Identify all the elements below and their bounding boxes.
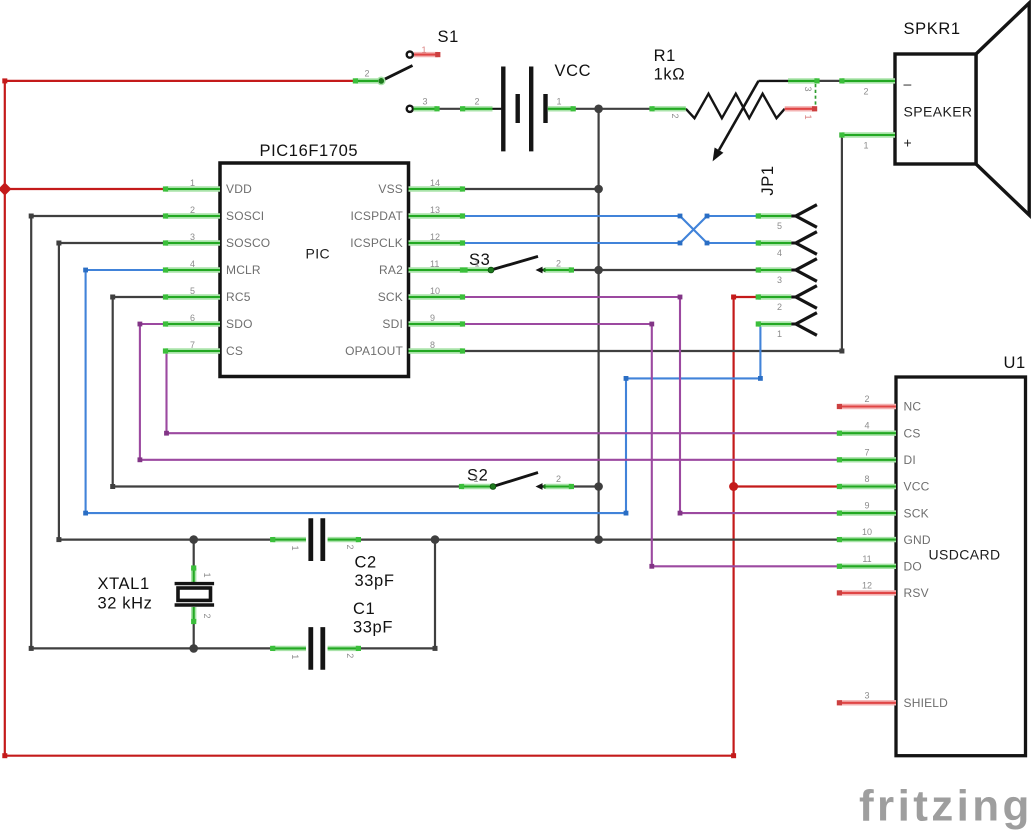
svg-text:4: 4 — [190, 259, 195, 269]
JP1 pin 5 stub — [756, 213, 792, 218]
PIC pin 3 SOSCO stub — [163, 240, 220, 245]
svg-text:OPA1OUT: OPA1OUT — [345, 344, 403, 358]
wire C1 to GND rail (dark) — [358, 540, 437, 651]
svg-text:3: 3 — [803, 86, 813, 91]
U1 pin 4 CS stub — [837, 431, 896, 436]
svg-text:VDD: VDD — [226, 182, 252, 196]
switch S2 lever — [493, 473, 538, 487]
PIC pin 7 CS stub — [163, 348, 220, 353]
wire RC5 to S2 (dark) — [110, 295, 461, 490]
svg-text:SHIELD: SHIELD — [904, 696, 949, 710]
PIC pin 8 OPA1OUT stub — [409, 348, 466, 353]
U1 pin 10 GND stub — [837, 537, 896, 542]
speaker SPKR1 body box — [895, 54, 976, 164]
svg-text:RC5: RC5 — [226, 290, 251, 304]
svg-text:SCK: SCK — [378, 290, 403, 304]
svg-text:U1: U1 — [1004, 354, 1026, 372]
wire VCC top rail (red) — [2, 78, 355, 83]
JP1 pin 1 stub — [756, 321, 792, 326]
svg-text:DO: DO — [904, 560, 922, 574]
svg-text:12: 12 — [430, 232, 440, 242]
wire VCC bottom rail (red) — [2, 753, 736, 758]
switch S3 contact arrow — [536, 267, 548, 274]
wire VCC to U1 VCC pin (red) — [734, 485, 840, 487]
PIC pin 1 VDD stub — [163, 186, 220, 191]
speaker SPKR1 pin 2 stub — [839, 78, 895, 83]
junction C1 branch on GND rail — [431, 535, 440, 544]
svg-text:2: 2 — [345, 653, 355, 658]
wire SOSCI to crystal rail (dark) — [29, 214, 273, 651]
svg-text:2: 2 — [345, 544, 355, 549]
svg-text:4: 4 — [864, 421, 869, 431]
switch S2 pin 2 stub — [546, 484, 575, 489]
U1 pin 8 VCC stub — [837, 484, 896, 489]
wire VSS to GND vertical (dark) — [463, 188, 599, 190]
svg-text:9: 9 — [864, 501, 869, 511]
battery VCC plate short left — [516, 94, 520, 123]
wire crossover to JP1 pin 5 (blue) — [707, 215, 758, 217]
switch S1 lever — [381, 66, 412, 81]
wire SOSCO to crystal rail (dark) — [56, 241, 272, 543]
wire crossover X lower-to-upper (blue) — [680, 216, 707, 243]
PIC pin 13 ICSPDAT stub — [409, 213, 466, 218]
svg-text:2: 2 — [202, 613, 212, 618]
U1 pin 11 DO stub — [837, 564, 896, 569]
U1 pin 2 NC stub — [837, 404, 896, 409]
battery pin 2 — [460, 106, 493, 111]
junction S3 line to GND vertical — [594, 266, 603, 275]
svg-text:S1: S1 — [438, 28, 459, 46]
svg-text:SDO: SDO — [226, 317, 253, 331]
wire CS to U1 CS (purple) — [164, 349, 840, 436]
wire crossover to JP1 pin 4 (blue) — [707, 242, 758, 244]
switch S3 pin 2 stub — [546, 267, 575, 272]
switch S1 pin 1 stub (red) — [414, 52, 440, 57]
svg-text:3: 3 — [777, 275, 782, 285]
svg-text:1: 1 — [290, 545, 300, 550]
svg-text:JP1: JP1 — [759, 165, 777, 195]
svg-text:13: 13 — [430, 205, 440, 215]
svg-text:VCC: VCC — [555, 62, 592, 80]
crystal XTAL1 body — [178, 588, 211, 600]
svg-text:SOSCI: SOSCI — [226, 209, 264, 223]
junction VSS node — [594, 185, 603, 194]
svg-text:1: 1 — [190, 178, 195, 188]
junction battery output node — [594, 105, 603, 114]
wire GND rail right of C2 (dark) — [358, 538, 840, 540]
svg-text:NC: NC — [904, 400, 922, 414]
capacitor C1 plates — [311, 627, 323, 670]
speaker SPKR1 cone — [976, 3, 1029, 215]
svg-text:1: 1 — [863, 141, 868, 151]
junction S2 line to GND vertical — [594, 482, 603, 491]
ratsnest R1 pin3 to pin1 (dashed green) — [815, 84, 817, 106]
svg-text:2: 2 — [670, 113, 680, 118]
svg-text:8: 8 — [864, 474, 869, 484]
svg-text:2: 2 — [364, 69, 369, 79]
speaker SPKR1 pin 1 stub — [839, 132, 895, 137]
svg-text:11: 11 — [862, 554, 871, 564]
svg-text:2: 2 — [474, 97, 479, 107]
wire VCC right vertical (red) — [732, 297, 734, 756]
wire R1 wiper to speaker minus (dark) — [817, 80, 842, 82]
PIC pin 11 RA2 stub — [409, 267, 466, 272]
svg-text:5: 5 — [777, 221, 782, 231]
svg-text:VCC: VCC — [904, 480, 930, 494]
svg-text:1kΩ: 1kΩ — [654, 66, 686, 84]
wire crossover X upper-to-lower (blue) — [680, 216, 707, 243]
svg-text:XTAL1: XTAL1 — [98, 575, 150, 593]
svg-text:9: 9 — [430, 313, 435, 323]
svg-text:SPEAKER: SPEAKER — [904, 104, 973, 120]
svg-text:4: 4 — [777, 248, 782, 258]
capacitor C2 pin 1 stub — [270, 537, 306, 542]
JP1 pin 2 arrow — [791, 286, 817, 309]
wire SCK to U1 SCK (purple) — [463, 295, 841, 516]
svg-text:33pF: 33pF — [355, 572, 395, 590]
svg-text:CS: CS — [904, 426, 921, 440]
svg-text:32 kHz: 32 kHz — [98, 595, 153, 613]
wire battery output (dark) — [573, 108, 599, 110]
svg-text:S3: S3 — [469, 251, 490, 269]
switch S1 terminal ring pin 3 — [407, 106, 413, 112]
PIC pin 10 SCK stub — [409, 294, 466, 299]
PIC pin 14 VSS stub — [409, 186, 466, 191]
svg-text:2: 2 — [556, 259, 561, 269]
resistor R1 wiper arm — [713, 81, 788, 161]
wire crystal pin2 link (dark) — [193, 622, 195, 649]
resistor R1 pin 3 stub — [788, 78, 820, 83]
svg-text:1: 1 — [474, 259, 479, 269]
svg-text:2: 2 — [777, 302, 782, 312]
wire S1 to battery (dark) — [437, 108, 463, 110]
wire S2 to GND vertical (dark) — [571, 485, 598, 487]
PIC pin 4 MCLR stub — [163, 267, 220, 272]
switch S1 pin 3 stub — [414, 106, 440, 111]
svg-text:2: 2 — [556, 474, 561, 484]
junction crystal bottom node — [189, 644, 198, 653]
svg-text:GND: GND — [904, 533, 931, 547]
svg-text:+: + — [904, 135, 913, 151]
U1 pin 9 SCK stub — [837, 511, 896, 516]
wire GND vertical from battery (dark) — [597, 109, 599, 540]
node crossover bendpoints (blue) — [678, 214, 710, 246]
switch S1 terminal ring pin 1 — [407, 52, 413, 58]
svg-text:CS: CS — [226, 344, 243, 358]
switch S3 pin 1 stub — [462, 267, 491, 272]
battery VCC plate long right — [529, 67, 533, 152]
svg-text:1: 1 — [556, 97, 561, 107]
svg-text:33pF: 33pF — [353, 618, 393, 636]
battery pin 1 — [548, 106, 576, 111]
svg-text:1: 1 — [473, 474, 478, 484]
svg-text:3: 3 — [422, 97, 427, 107]
capacitor C2 pin 2 stub — [328, 537, 361, 542]
battery VCC plate short right — [543, 94, 547, 123]
svg-text:R1: R1 — [654, 47, 676, 65]
svg-text:SDI: SDI — [382, 317, 403, 331]
svg-text:3: 3 — [190, 232, 195, 242]
svg-text:SOSCO: SOSCO — [226, 236, 270, 250]
PIC pin 12 ICSPCLK stub — [409, 240, 466, 245]
wire MCLR to JP1 pin 1 (blue) — [83, 268, 763, 516]
svg-text:1: 1 — [421, 45, 426, 55]
JP1 pin 3 arrow — [791, 259, 817, 282]
resistor R1 pin 1 stub (red) — [785, 106, 818, 111]
svg-text:VSS: VSS — [378, 182, 403, 196]
junction GND vertical to GND rail — [594, 535, 603, 544]
PIC pin 9 SDI stub — [409, 321, 466, 326]
capacitor C1 pin 2 stub — [328, 646, 361, 651]
svg-text:C2: C2 — [355, 554, 377, 572]
capacitor C1 pin 1 stub — [270, 646, 306, 651]
svg-text:7: 7 — [864, 447, 869, 457]
svg-text:2: 2 — [190, 205, 195, 215]
svg-text:1: 1 — [803, 114, 813, 119]
wire crystal pin1 link (dark) — [193, 540, 195, 568]
svg-text:MCLR: MCLR — [226, 263, 261, 277]
JP1 pin 1 arrow — [791, 313, 817, 336]
svg-text:10: 10 — [430, 286, 440, 296]
junction VCC-U1 branch — [729, 482, 738, 491]
svg-text:12: 12 — [862, 580, 872, 590]
capacitor C2 plates — [311, 518, 323, 561]
svg-text:1: 1 — [202, 572, 212, 577]
switch S2 pin 1 stub — [459, 484, 492, 489]
JP1 pin 4 arrow — [791, 232, 817, 255]
op-amp PIC16F1705 body — [220, 163, 409, 377]
svg-text:–: – — [904, 76, 912, 92]
U1 pin 7 DI stub — [837, 457, 896, 462]
svg-text:PIC: PIC — [306, 246, 331, 262]
battery pin 2 lead — [493, 108, 502, 110]
svg-text:11: 11 — [430, 259, 439, 269]
svg-text:8: 8 — [430, 340, 435, 350]
svg-text:1: 1 — [777, 329, 782, 339]
switch S2 contact arrow — [536, 483, 548, 490]
resistor R1 pin 2 stub — [649, 106, 685, 111]
JP1 pin 3 stub — [756, 267, 792, 272]
PIC pin 5 RC5 stub — [163, 294, 220, 299]
U1 pin 12 RSV stub — [837, 590, 896, 595]
PIC pin 6 SDO stub — [163, 321, 220, 326]
junction crystal top node — [189, 535, 198, 544]
JP1 pin 5 arrow — [791, 205, 817, 228]
svg-text:RSV: RSV — [904, 586, 929, 600]
wire battery junction to R1 (dark) — [599, 108, 652, 110]
svg-text:SPKR1: SPKR1 — [904, 20, 961, 38]
svg-text:PIC16F1705: PIC16F1705 — [260, 142, 359, 160]
wire SDI to U1 DO (purple) — [463, 322, 841, 569]
PIC pin 2 SOSCI stub — [163, 213, 220, 218]
wire RA2 to S3 (green) — [463, 269, 467, 271]
crystal XTAL1 pin 1 stub — [191, 565, 196, 582]
battery VCC plate long left — [501, 67, 505, 152]
switch S1 pin 2 stub — [353, 78, 378, 83]
svg-text:ICSPCLK: ICSPCLK — [350, 236, 403, 250]
svg-text:ICSPDAT: ICSPDAT — [350, 209, 403, 223]
crystal XTAL1 pin 2 stub — [191, 607, 196, 624]
JP1 pin 4 stub — [756, 240, 792, 245]
svg-text:5: 5 — [190, 286, 195, 296]
wire VDD branch (red) — [5, 188, 167, 190]
node VDD junction diamond — [0, 182, 11, 195]
svg-text:RA2: RA2 — [379, 263, 403, 277]
wire VCC left vertical (red) — [4, 81, 6, 756]
svg-text:2: 2 — [863, 87, 868, 97]
svg-text:fritzing: fritzing — [859, 781, 1032, 830]
switch S2 pivot — [490, 484, 496, 490]
crystal XTAL1 plate bottom — [175, 603, 215, 606]
wire VCC to JP1 pin 2 (red) — [731, 295, 761, 300]
switch S3 pivot — [488, 267, 494, 273]
switch S1 pivot pin 2 — [377, 77, 386, 86]
svg-text:USDCARD: USDCARD — [929, 547, 1001, 563]
wire OPA1OUT to speaker plus (dark) — [463, 133, 845, 354]
wire ICSPCLK to crossover (blue) — [463, 242, 681, 244]
svg-text:C1: C1 — [353, 600, 375, 618]
transistor U1 USDCARD body — [896, 377, 1026, 756]
U1 pin 3 SHIELD stub (red) — [837, 700, 896, 705]
resistor R1 zigzag — [686, 94, 785, 119]
svg-text:10: 10 — [862, 527, 872, 537]
svg-text:7: 7 — [190, 340, 195, 350]
svg-text:DI: DI — [904, 453, 916, 467]
svg-text:6: 6 — [190, 313, 195, 323]
svg-text:14: 14 — [430, 178, 440, 188]
wire S3 to JP1 pin 3 (dark) — [571, 269, 758, 271]
svg-text:2: 2 — [864, 394, 869, 404]
switch S3 lever — [491, 256, 538, 270]
svg-text:1: 1 — [290, 654, 300, 659]
svg-text:3: 3 — [864, 690, 869, 700]
JP1 pin 2 stub — [756, 294, 792, 299]
wire SDO to U1 DI (purple) — [138, 322, 841, 463]
crystal XTAL1 plate top — [175, 582, 215, 585]
svg-text:SCK: SCK — [904, 506, 929, 520]
wire ICSPDAT to crossover (blue) — [463, 215, 681, 217]
